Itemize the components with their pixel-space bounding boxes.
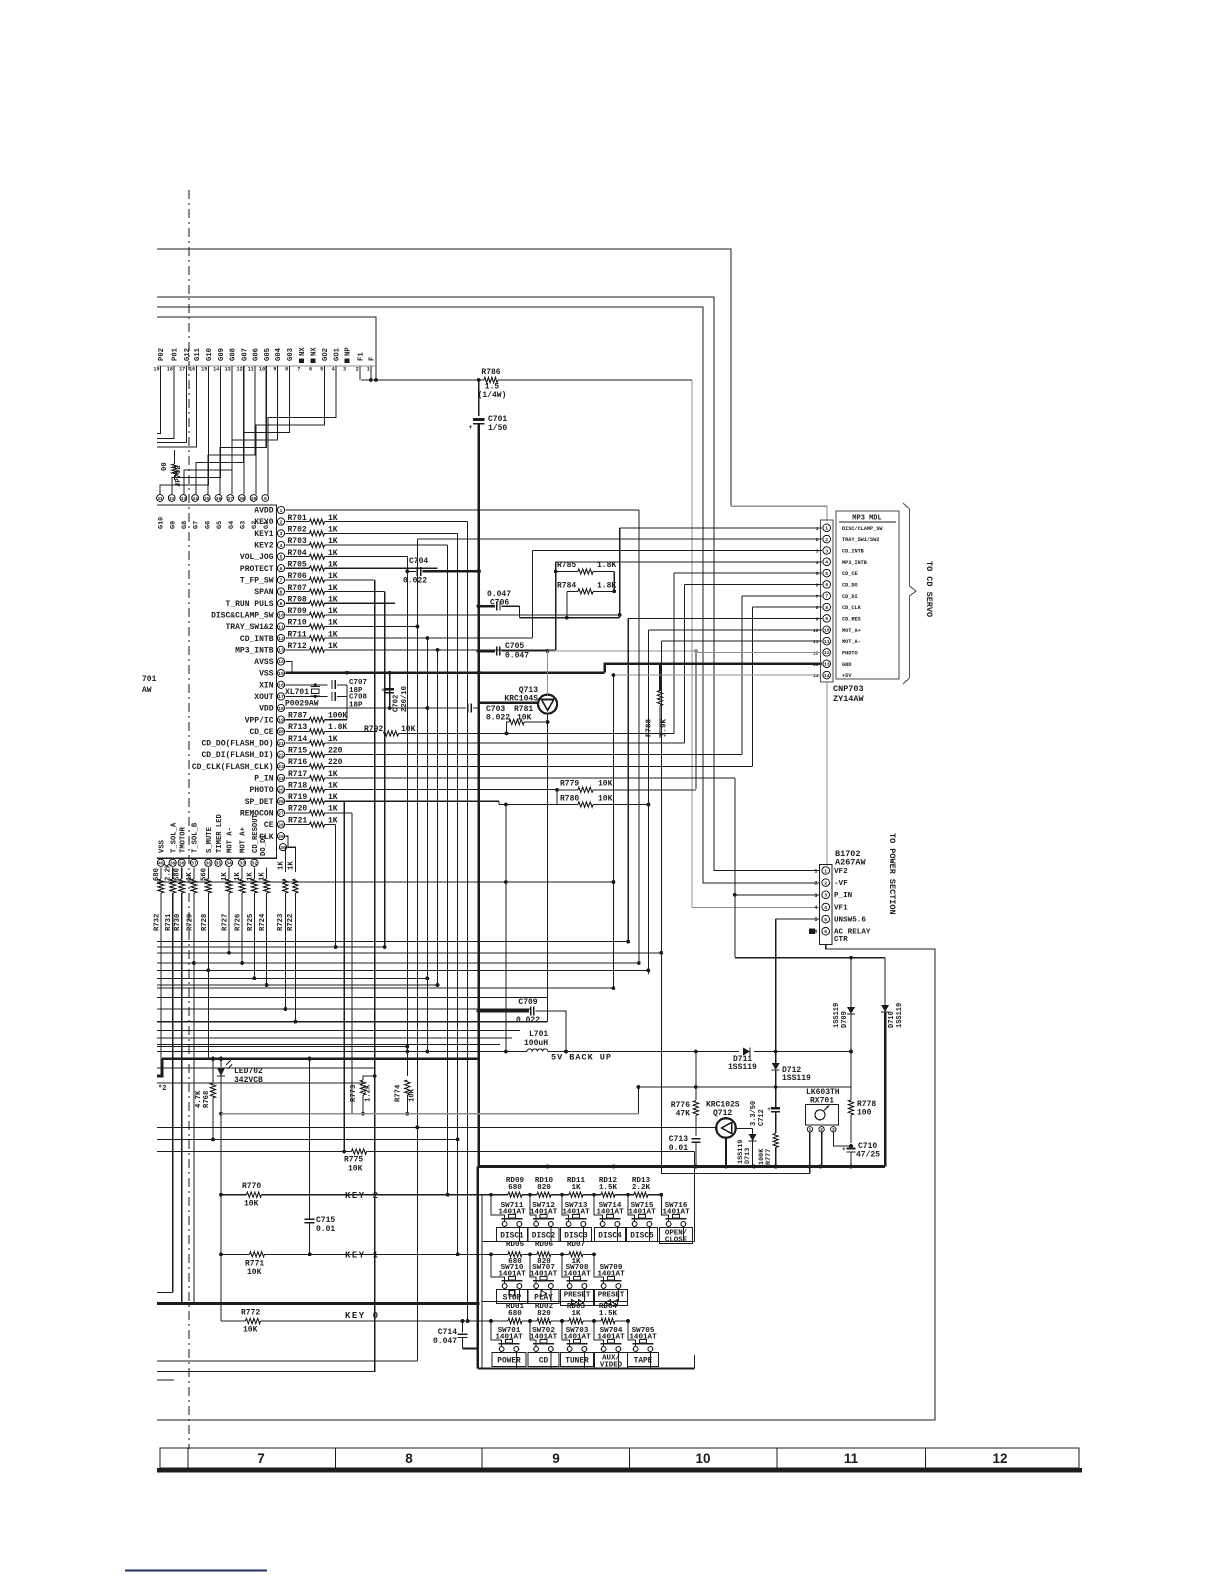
IC701 top pin G1	[262, 495, 269, 502]
svg-text:DISC4: DISC4	[598, 1233, 622, 1241]
svg-text:10: 10	[813, 628, 819, 634]
IC701 bottom pin 34 MOT A-	[225, 859, 232, 866]
svg-text:C714: C714	[438, 1328, 457, 1337]
svg-text:R704: R704	[288, 549, 307, 558]
B1702 pin 6 AC RELAY	[822, 927, 830, 935]
IC701 pin 24 P_IN	[277, 774, 284, 781]
svg-text:T_RUN PULS: T_RUN PULS	[225, 600, 273, 609]
switch SW715 1401AT	[628, 1195, 635, 1222]
IC701 pin 28 CE	[277, 821, 284, 828]
wire bus horizontal to left margin	[157, 969, 648, 971]
svg-text:G08: G08	[229, 348, 237, 361]
svg-text:5V BACK UP: 5V BACK UP	[551, 1053, 612, 1063]
svg-text:A267AW: A267AW	[835, 858, 867, 868]
IC701 microcomputer body (clipped at page edge)	[157, 505, 276, 858]
svg-text:3.3/50: 3.3/50	[750, 1101, 758, 1126]
svg-text:+: +	[842, 1146, 846, 1153]
wire CNP703 pin10 MOT_A+	[648, 629, 822, 631]
svg-text:PHOTO: PHOTO	[842, 650, 858, 656]
wire P02 exit left	[157, 366, 161, 433]
wire bus vertical KEY2 net	[447, 545, 449, 1195]
svg-text:NP: NP	[345, 347, 353, 356]
svg-text:R702: R702	[288, 526, 307, 535]
resistor R773 1.2K (vertical)	[363, 1076, 375, 1080]
svg-text:R718: R718	[288, 781, 307, 790]
svg-text:26: 26	[278, 799, 284, 805]
wire row3 bottom rail	[478, 1368, 695, 1370]
wire Q712 base line	[157, 1126, 716, 1128]
IC701 bottom pin 40 VSS	[157, 859, 164, 866]
wire PHOTO net gray	[548, 650, 696, 652]
svg-text:DISC1: DISC1	[500, 1233, 524, 1241]
svg-text:G07: G07	[241, 348, 249, 361]
resistor R779 10K	[557, 789, 578, 791]
wire bus vertical KEY0 net	[467, 522, 469, 1321]
svg-text:8: 8	[285, 367, 288, 373]
svg-text:15: 15	[201, 367, 207, 373]
svg-text:9: 9	[816, 616, 819, 622]
svg-text:G05: G05	[264, 348, 272, 361]
resistor RD06 820	[537, 1252, 551, 1257]
wire bus horizontal to left margin	[157, 1138, 458, 1140]
resistor R774 10K (vertical)	[405, 1080, 410, 1095]
svg-text:22: 22	[278, 752, 284, 758]
wire row1 bottom rail	[482, 1241, 695, 1243]
wire CNP703 pin9 CD_RES	[628, 617, 822, 619]
resistor R784 1.8K	[567, 590, 578, 592]
svg-text:CE: CE	[264, 821, 274, 830]
svg-text:RD07: RD07	[567, 1241, 586, 1249]
svg-text:R711: R711	[288, 630, 307, 639]
svg-text:11: 11	[824, 639, 830, 645]
svg-text:G8: G8	[181, 521, 189, 529]
transistor Q712 KRC102S	[716, 1118, 736, 1138]
wire bus vertical R712/MP3_INTB net	[437, 650, 439, 985]
wire lower-left exit 2	[157, 1360, 417, 1362]
svg-text:1SS119: 1SS119	[737, 1140, 745, 1164]
resistor R716 220	[286, 765, 310, 767]
switch SW716 1401AT	[661, 1195, 668, 1222]
wire F pin stub	[370, 366, 372, 380]
wire AVDD row	[286, 509, 639, 511]
svg-text:29: 29	[278, 834, 284, 840]
wire GND step to CNP703 pin13 (thick)	[605, 664, 822, 673]
IC701 pin 3 KEY1	[277, 530, 284, 537]
resistor R709 1K	[286, 614, 310, 616]
svg-text:2: 2	[814, 881, 817, 887]
resistor R719 1K	[286, 800, 310, 802]
resistor R727 1K (vertical)	[228, 867, 230, 879]
diode D712 1SS119 (vertical)	[775, 1052, 777, 1065]
wire bus vertical R710/TRAY net	[416, 539, 418, 1361]
IC701 top pin G7	[192, 495, 199, 502]
svg-text:R709: R709	[288, 607, 307, 616]
IC701 pin 10 DISC&CLAMP_SW	[277, 611, 284, 618]
svg-text:VOL_JOG: VOL_JOG	[240, 553, 274, 562]
svg-text:100: 100	[857, 1109, 872, 1118]
svg-text:R722: R722	[287, 914, 295, 931]
resistor RD09 680	[508, 1192, 522, 1197]
svg-text:1K: 1K	[571, 1184, 581, 1192]
svg-text:PRESET: PRESET	[564, 1292, 591, 1300]
CNP703 pin 5 CD_CE	[823, 569, 831, 577]
svg-text:DISC/CLAMP_SW: DISC/CLAMP_SW	[842, 526, 883, 532]
wire CNP703 pin12 PHOTO	[696, 651, 822, 653]
svg-text:16: 16	[278, 683, 284, 689]
svg-text:R714: R714	[288, 735, 307, 744]
wire B1702 pin3 P_IN net	[735, 894, 819, 896]
svg-text:32: 32	[169, 496, 175, 502]
svg-text:20: 20	[278, 729, 284, 735]
resistor R788 3.9K (vertical)	[659, 664, 661, 691]
svg-text:CLOSE: CLOSE	[665, 1237, 688, 1245]
wire bus horizontal to left margin	[157, 1008, 531, 1010]
svg-text:13: 13	[824, 662, 830, 668]
svg-text:TUNER: TUNER	[565, 1358, 589, 1366]
resistor R723 1K (vertical)	[283, 879, 288, 893]
svg-text:8: 8	[280, 589, 283, 595]
svg-text:10: 10	[695, 1451, 710, 1466]
svg-text:36: 36	[205, 861, 211, 867]
svg-text:+5V: +5V	[842, 673, 852, 679]
svg-text:14: 14	[824, 673, 830, 679]
IC701 pin 11 TRAY_SW1&2	[277, 623, 284, 630]
wire bus horizontal to left margin	[157, 1030, 520, 1032]
IC701 bottom pin 37 T_SOL_B	[190, 859, 197, 866]
svg-text:MOT A-: MOT A-	[227, 827, 235, 853]
CNP703 pin 4 MP3_INTB	[823, 558, 831, 566]
svg-text:Q712: Q712	[713, 1109, 732, 1118]
svg-text:37: 37	[227, 496, 233, 502]
resistor R703 1K	[286, 544, 310, 546]
svg-text:R770: R770	[242, 1182, 261, 1191]
svg-text:10K: 10K	[247, 1268, 262, 1277]
resistor R781 10K	[507, 722, 510, 733]
svg-text:VF1: VF1	[834, 904, 848, 912]
wire bus vertical R704/C704 net	[406, 557, 408, 1076]
IC701 pin 9 T_RUN PULS	[277, 600, 284, 607]
IC701 top pin G5	[215, 495, 222, 502]
IC701 bottom pin 36 S_MUTE	[205, 859, 212, 866]
wire top pin to IC pin	[268, 366, 336, 494]
svg-text:7: 7	[257, 1451, 265, 1466]
svg-text:2.2K: 2.2K	[632, 1184, 651, 1192]
IC701 bottom pin 33 MOT A+	[239, 859, 246, 866]
wire P01 exit left	[157, 366, 174, 438]
svg-text:6: 6	[309, 367, 312, 373]
svg-text:14: 14	[278, 659, 284, 665]
svg-text:1401AT: 1401AT	[530, 1334, 558, 1342]
svg-text:1K: 1K	[328, 781, 338, 790]
svg-text:MP3 MDL: MP3 MDL	[852, 515, 881, 523]
svg-text:1SS119: 1SS119	[728, 1063, 757, 1072]
svg-text:17: 17	[278, 694, 284, 700]
svg-text:TMOTOR: TMOTOR	[179, 826, 187, 853]
svg-text:R725: R725	[247, 914, 255, 931]
diode D709 1SS119 (vertical)	[850, 958, 852, 1008]
svg-text:G12: G12	[184, 348, 192, 361]
IC701 pin 22 CD_DI(FLASH_DI)	[277, 751, 284, 758]
svg-text:F: F	[369, 357, 377, 361]
wire top pin to IC pin	[256, 366, 324, 494]
svg-text:10: 10	[259, 367, 265, 373]
svg-text:CD_DO: CD_DO	[842, 582, 858, 588]
wire G12 exit left	[157, 366, 186, 442]
svg-text:R792: R792	[364, 725, 383, 734]
resistor R778 100 (vertical)	[850, 1087, 852, 1100]
switch SW703 1401AT	[562, 1321, 570, 1346]
svg-text:1401AT: 1401AT	[629, 1334, 657, 1342]
switch SW704 1401AT	[594, 1321, 604, 1346]
resistor R714 1K	[286, 742, 310, 744]
svg-text:P_IN: P_IN	[254, 775, 273, 784]
svg-text:R732: R732	[153, 914, 161, 931]
resistor R701 1K	[286, 521, 310, 523]
svg-text:1K: 1K	[328, 770, 338, 779]
svg-text:1K: 1K	[221, 872, 229, 881]
svg-text:100K: 100K	[328, 712, 347, 721]
wire F1 pin stub	[359, 366, 361, 380]
capacitor C703 0.022	[467, 704, 469, 713]
svg-text:KEY1: KEY1	[254, 530, 273, 539]
svg-text:18: 18	[278, 706, 284, 712]
svg-text:G3: G3	[240, 521, 248, 529]
svg-text:JP702: JP702	[175, 465, 183, 487]
IC701 pin 30 DO_DI	[279, 844, 286, 851]
wire bus top line 1 (P_IN net to CNP703 pin1 feed)	[157, 249, 731, 506]
svg-text:19: 19	[278, 718, 284, 724]
svg-text:1.5K: 1.5K	[599, 1184, 618, 1192]
CNP703 pin 7 CD_DI	[823, 592, 831, 600]
wire GND main vertical (thick)	[477, 424, 480, 1167]
svg-text:4: 4	[814, 905, 817, 911]
wire SP_DET return loop	[505, 805, 507, 1052]
svg-text:AW: AW	[142, 686, 152, 695]
svg-text:R729: R729	[186, 914, 194, 931]
resistor R707 1K	[286, 591, 310, 593]
svg-text:PHOTO: PHOTO	[249, 786, 273, 795]
svg-text:10K: 10K	[598, 780, 613, 789]
svg-text:G09: G09	[218, 348, 226, 361]
wire top pin to IC pin	[184, 366, 232, 494]
wire KEY0 switch chain	[491, 1320, 508, 1322]
resistor RD02 820	[537, 1318, 551, 1323]
wire bus vertical R711/CD_INTB net	[426, 638, 428, 1051]
resistor R713 1.8K	[286, 730, 310, 732]
svg-text:R720: R720	[288, 805, 307, 814]
svg-text:1K: 1K	[278, 861, 286, 870]
svg-text:1401AT: 1401AT	[530, 1209, 558, 1217]
svg-text:1K: 1K	[246, 872, 254, 881]
wire R784 left to C706 line	[566, 591, 568, 617]
svg-text:DO_DI: DO_DI	[260, 834, 268, 856]
B1702 pin6 polarity square	[809, 929, 815, 935]
brace TO CD SERVO	[903, 503, 916, 684]
svg-text:ZY14AW: ZY14AW	[833, 694, 865, 704]
svg-text:47/25: 47/25	[856, 1151, 880, 1160]
svg-text:R723: R723	[277, 914, 285, 931]
svg-text:R787: R787	[288, 712, 307, 721]
capacitor C706 0.047	[479, 605, 496, 608]
svg-text:CD_INTB: CD_INTB	[842, 549, 864, 555]
svg-text:1401AT: 1401AT	[562, 1209, 590, 1217]
svg-text:CD_INTB: CD_INTB	[240, 635, 274, 644]
svg-text:KEY 1: KEY 1	[345, 1251, 380, 1261]
svg-text:C708: C708	[349, 693, 368, 701]
wire P_IN diode feed line	[735, 957, 885, 959]
svg-text:10K: 10K	[401, 725, 416, 734]
resistor RD10 820	[537, 1192, 551, 1197]
svg-text:R708: R708	[288, 595, 307, 604]
wire crystal bus vertical	[346, 685, 348, 720]
svg-text:820: 820	[537, 1184, 551, 1192]
CNP703 pin 3 CD_INTB	[823, 547, 831, 555]
IC701 pin 17 XOUT	[277, 693, 284, 700]
svg-text:7: 7	[825, 594, 828, 600]
bottom ruler grid band	[160, 1448, 1079, 1468]
svg-text:3: 3	[825, 548, 828, 554]
IC701 pin 7 T_FP_SW	[277, 576, 284, 583]
svg-text:16: 16	[189, 367, 195, 373]
svg-text:P0029AW: P0029AW	[285, 700, 319, 709]
capacitor C715 0.01	[309, 1059, 311, 1219]
svg-text:37: 37	[191, 861, 197, 867]
svg-text:C706: C706	[490, 598, 509, 607]
svg-text:MP3_INTB: MP3_INTB	[842, 560, 867, 566]
switch SW702 1401AT	[530, 1321, 536, 1346]
resistor R725 1K (vertical)	[253, 867, 255, 879]
svg-text:11: 11	[278, 624, 284, 630]
svg-text:0.047: 0.047	[433, 1337, 457, 1346]
svg-text:C702: C702	[393, 695, 401, 712]
resistor R704 1K	[286, 556, 310, 558]
svg-text:PRESET: PRESET	[598, 1292, 625, 1300]
svg-text:1.5K: 1.5K	[599, 1310, 618, 1318]
svg-text:R788: R788	[646, 718, 654, 737]
CNP703 pin 8 CD_CLK	[823, 603, 831, 611]
wire bus horizontal to left margin	[157, 952, 661, 954]
diode D713 1SS119 (vertical)	[736, 1127, 753, 1129]
wire AVSS stub	[286, 662, 292, 673]
IC701 pin 16 XIN	[277, 681, 284, 688]
CNP703 pin 11 MOT_A-	[823, 637, 831, 645]
resistor RD03 1K	[569, 1318, 583, 1323]
svg-text:R772: R772	[241, 1309, 260, 1318]
wire CNP703 pin5 CD_CE	[674, 572, 822, 574]
svg-text:21: 21	[278, 741, 284, 747]
CNP703 pin 10 MOT_A+	[823, 626, 831, 634]
wire KEY 2 line	[221, 1194, 247, 1196]
svg-text:C705: C705	[505, 642, 524, 651]
svg-text:4: 4	[825, 560, 828, 566]
IC701 bottom pin 35 TIMER LED	[215, 859, 222, 866]
svg-text:4: 4	[332, 367, 335, 373]
capacitor C704 0.022	[407, 570, 416, 572]
IC701 top pin G8	[180, 495, 187, 502]
switch SW709 1401AT	[594, 1254, 604, 1283]
wire bus horizontal to left margin	[157, 941, 628, 943]
wire top pin to IC pin	[244, 366, 289, 494]
svg-text:14: 14	[813, 673, 819, 679]
svg-text:R701: R701	[288, 514, 307, 523]
wire top pin to IC pin	[220, 366, 266, 494]
capacitor C702 220/10 (electrolytic)	[389, 673, 391, 708]
svg-text:11: 11	[813, 639, 819, 645]
svg-text:VDD: VDD	[259, 705, 274, 714]
connector CNP703 body	[821, 520, 834, 682]
IC701 pin 21 CD_DO(FLASH_DO)	[277, 739, 284, 746]
svg-text:4: 4	[816, 560, 819, 566]
svg-text:NX: NX	[299, 347, 307, 356]
resistor R715 220	[286, 754, 310, 756]
svg-text:2: 2	[816, 537, 819, 543]
svg-text:GND: GND	[842, 662, 851, 668]
svg-text:KEY 2: KEY 2	[345, 1191, 380, 1201]
IC701 pin 29 CLK	[277, 833, 284, 840]
svg-text:7: 7	[280, 578, 283, 584]
B1702 pin 4 VF1	[822, 903, 830, 911]
svg-text:0.022: 0.022	[403, 577, 427, 586]
wire OPEN/CLOSE to R775 line	[694, 1152, 696, 1242]
resistor R786 1.5 (1/4W)	[498, 379, 692, 381]
svg-text:R705: R705	[288, 561, 307, 570]
svg-text:6: 6	[825, 582, 828, 588]
svg-text:SPAN: SPAN	[254, 588, 273, 597]
svg-text:VSS: VSS	[159, 839, 167, 853]
svg-text:820: 820	[537, 1310, 551, 1318]
svg-text:9: 9	[825, 616, 828, 622]
svg-text:36: 36	[216, 496, 222, 502]
svg-text:39: 39	[251, 496, 257, 502]
IC701 top pin G3	[239, 495, 246, 502]
svg-text:C707: C707	[349, 679, 367, 687]
svg-text:2.2K: 2.2K	[165, 863, 173, 881]
svg-text:1K: 1K	[259, 872, 267, 881]
svg-text:17: 17	[179, 367, 185, 373]
svg-text:G10: G10	[206, 348, 214, 361]
svg-text:R727: R727	[222, 914, 230, 931]
svg-text:DISC5: DISC5	[630, 1233, 654, 1241]
wire AVDD net vertical	[638, 510, 640, 963]
svg-text:DISC3: DISC3	[564, 1233, 588, 1241]
svg-text:TO CD SERVO: TO CD SERVO	[924, 561, 934, 617]
svg-text:12: 12	[824, 650, 830, 656]
svg-text:24: 24	[278, 776, 284, 782]
resistor R785 1.8K	[556, 571, 578, 573]
IC701 pin 18 VDD	[277, 704, 284, 711]
B1702 pin 1 VF2	[822, 867, 830, 875]
IC701 pin 8 SPAN	[277, 588, 284, 595]
svg-text:12: 12	[813, 650, 819, 656]
resistor R792 10K	[384, 731, 399, 736]
wire VSS GND row (thick)	[286, 671, 605, 674]
resistor R775 10K	[157, 1151, 352, 1153]
ruler thick base line	[157, 1468, 1082, 1472]
svg-text:CD_RESOUT: CD_RESOUT	[252, 813, 260, 853]
wire bus top line 3 (-VF net to B1702 pin2)	[157, 307, 819, 883]
svg-text:0.022: 0.022	[516, 1016, 540, 1025]
svg-text:G04: G04	[275, 347, 283, 361]
svg-text:1401AT: 1401AT	[597, 1334, 625, 1342]
svg-text:UNSW5.6: UNSW5.6	[834, 917, 866, 925]
svg-text:3: 3	[816, 549, 819, 555]
diode D711 1SS119	[743, 1048, 750, 1056]
svg-text:1401AT: 1401AT	[563, 1334, 591, 1342]
svg-text:25: 25	[278, 787, 284, 793]
svg-text:R779: R779	[560, 780, 579, 789]
svg-text:VF2: VF2	[834, 868, 848, 876]
IC701 top pin G4	[227, 495, 234, 502]
